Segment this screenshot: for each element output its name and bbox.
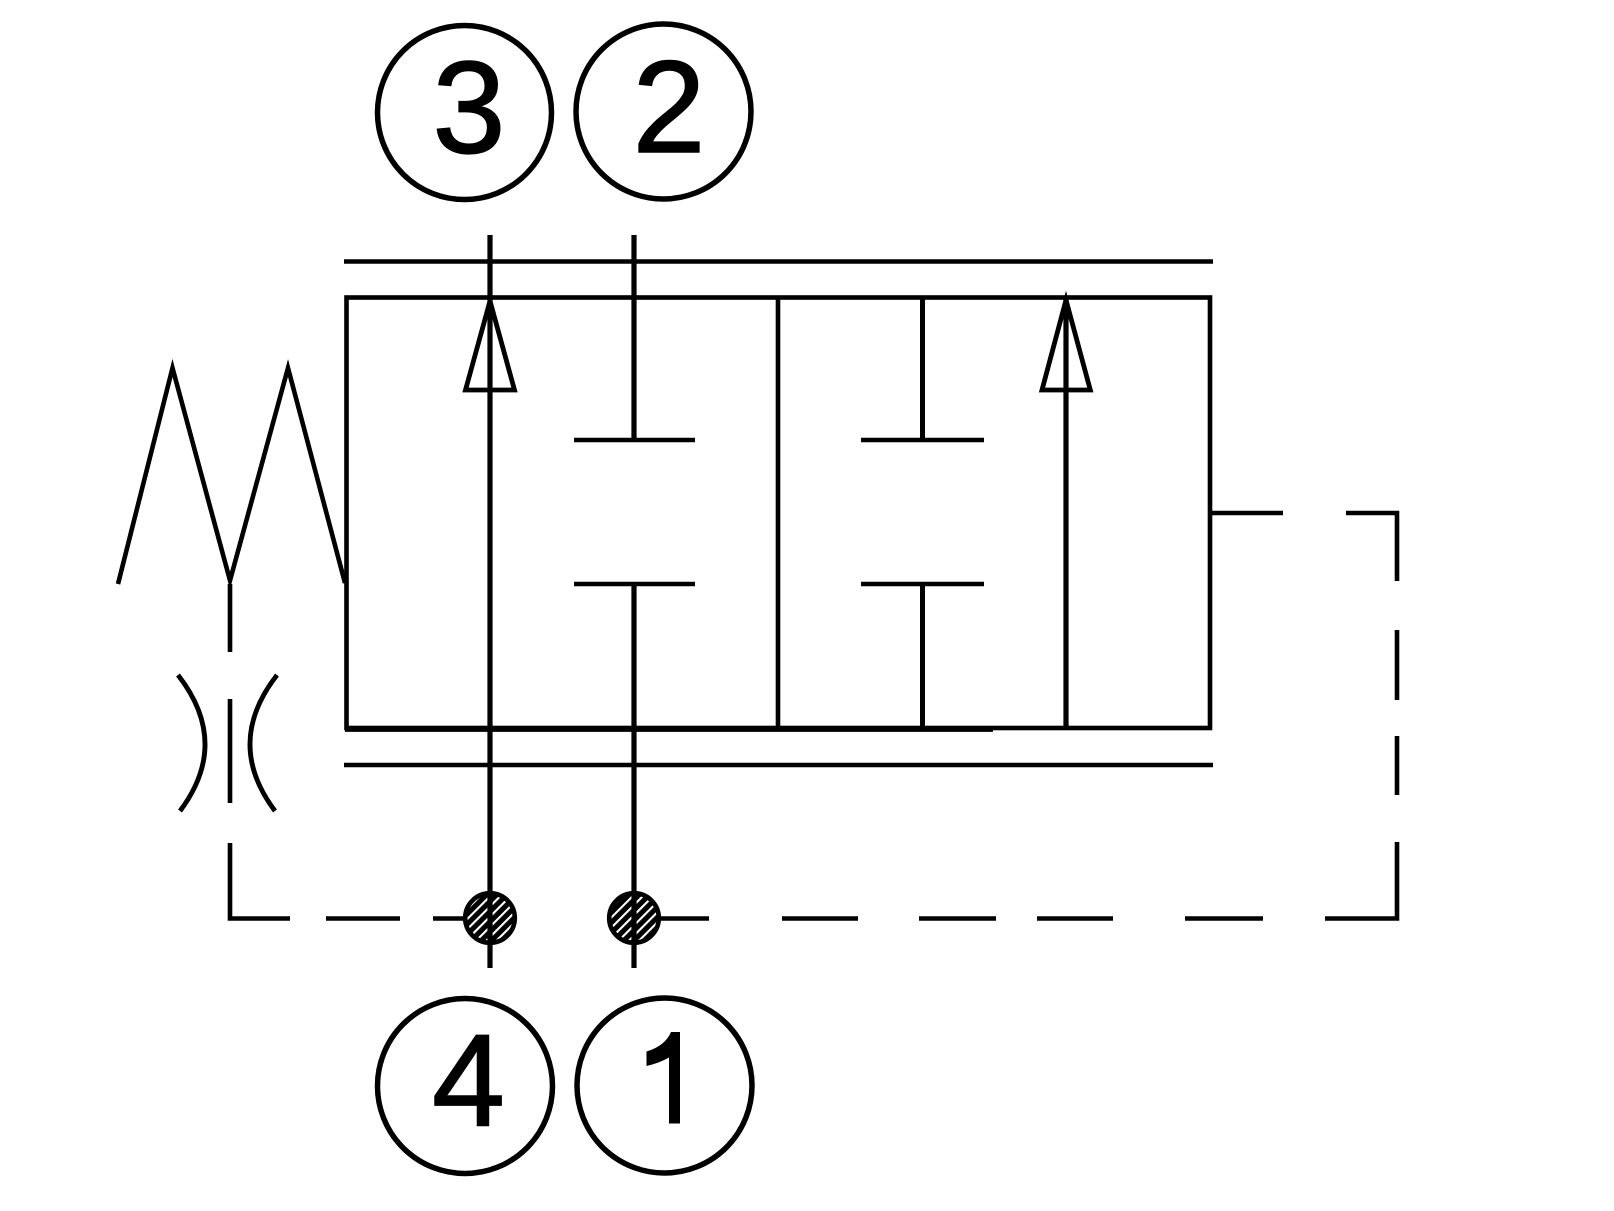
svg-text:4: 4 — [432, 1007, 505, 1154]
svg-text:3: 3 — [433, 34, 506, 181]
svg-text:2: 2 — [633, 33, 706, 180]
